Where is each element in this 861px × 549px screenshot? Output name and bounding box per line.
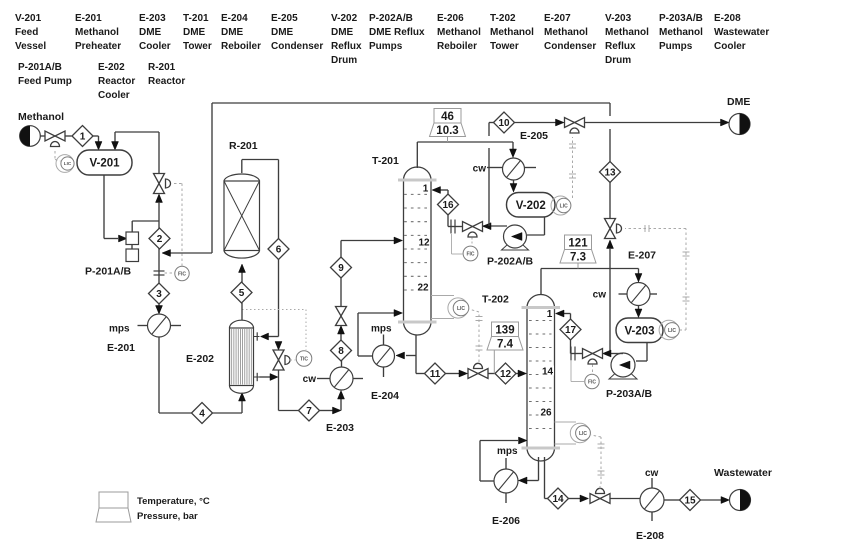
svg-text:E-202: E-202 [186,353,214,365]
svg-text:1: 1 [80,132,86,143]
svg-text:P-201A/B: P-201A/B [85,266,132,278]
svg-text:Reactor: Reactor [148,76,185,87]
svg-text:Pressure, bar: Pressure, bar [137,511,198,522]
svg-text:Drum: Drum [605,55,631,66]
svg-text:Reflux: Reflux [331,41,362,52]
svg-text:46: 46 [441,111,454,123]
svg-text:R-201: R-201 [229,140,258,152]
svg-text:DME: DME [183,27,206,38]
svg-text:8: 8 [338,346,344,357]
svg-text:P-202A/B: P-202A/B [487,256,534,268]
svg-text:11: 11 [430,369,441,380]
svg-text:14: 14 [552,494,564,505]
svg-text:3: 3 [156,289,162,300]
svg-text:TIC: TIC [300,356,308,362]
svg-text:P-203A/B: P-203A/B [606,388,653,400]
svg-text:P-201A/B: P-201A/B [18,62,62,73]
svg-text:Pumps: Pumps [369,41,403,52]
svg-text:DME: DME [331,27,354,38]
svg-text:T-202: T-202 [482,294,509,306]
svg-text:T-201: T-201 [372,155,399,167]
svg-text:7: 7 [306,406,312,417]
svg-text:4: 4 [199,409,205,420]
svg-text:E-208: E-208 [636,530,664,542]
svg-text:E-205: E-205 [520,130,548,142]
svg-text:DME: DME [271,27,294,38]
svg-text:LIC: LIC [579,431,587,437]
svg-text:cw: cw [303,374,317,385]
svg-text:7.4: 7.4 [497,339,514,351]
svg-text:9: 9 [338,263,344,274]
svg-text:Pumps: Pumps [659,41,693,52]
svg-text:LIC: LIC [668,328,676,334]
svg-text:Cooler: Cooler [714,41,746,52]
svg-text:P-202A/B: P-202A/B [369,13,413,24]
svg-text:139: 139 [495,325,514,337]
svg-text:E-206: E-206 [437,13,464,24]
svg-text:V-201: V-201 [15,13,42,24]
svg-text:E-208: E-208 [714,13,741,24]
svg-text:Reflux: Reflux [605,41,636,52]
svg-text:1: 1 [547,309,553,320]
svg-text:E-204: E-204 [221,13,248,24]
svg-text:Feed: Feed [15,27,38,38]
svg-text:15: 15 [684,496,696,507]
svg-text:LIC: LIC [457,306,465,312]
svg-text:DME: DME [727,96,750,108]
svg-text:mps: mps [109,324,130,335]
svg-text:Drum: Drum [331,55,357,66]
svg-text:Methanol: Methanol [75,27,119,38]
svg-text:FIC: FIC [466,251,474,257]
svg-text:FIC: FIC [178,271,186,277]
svg-text:E-205: E-205 [271,13,298,24]
svg-text:14: 14 [542,367,554,378]
svg-text:1: 1 [423,184,429,195]
svg-text:E-207: E-207 [628,250,656,262]
svg-text:E-201: E-201 [75,13,102,24]
svg-text:10.3: 10.3 [436,125,458,137]
svg-text:Cooler: Cooler [139,41,171,52]
svg-text:P-203A/B: P-203A/B [659,13,703,24]
svg-text:Methanol: Methanol [18,111,64,123]
svg-text:Vessel: Vessel [15,41,46,52]
svg-text:17: 17 [565,325,577,336]
svg-text:Methanol: Methanol [605,27,649,38]
svg-text:16: 16 [442,200,454,211]
svg-text:FIC: FIC [588,379,596,385]
svg-text:mps: mps [371,324,392,335]
svg-text:Cooler: Cooler [98,90,130,101]
svg-text:Reboiler: Reboiler [221,41,261,52]
svg-text:DME: DME [221,27,244,38]
svg-text:E-204: E-204 [371,390,399,402]
svg-text:Tower: Tower [490,41,519,52]
svg-text:Methanol: Methanol [659,27,703,38]
svg-text:DME Reflux: DME Reflux [369,27,425,38]
svg-text:E-207: E-207 [544,13,571,24]
svg-text:7.3: 7.3 [570,252,586,264]
svg-text:12: 12 [500,369,512,380]
svg-text:V-203: V-203 [624,325,654,337]
svg-text:5: 5 [239,288,245,299]
svg-text:Temperature, °C: Temperature, °C [137,496,210,507]
svg-text:LIC: LIC [64,161,72,166]
svg-text:121: 121 [568,238,588,250]
svg-text:Condenser: Condenser [544,41,596,52]
svg-text:cw: cw [593,290,607,301]
svg-text:26: 26 [540,408,552,419]
svg-text:V-203: V-203 [605,13,632,24]
svg-text:T-202: T-202 [490,13,516,24]
svg-text:E-201: E-201 [107,342,135,354]
svg-text:Feed Pump: Feed Pump [18,76,72,87]
svg-text:Methanol: Methanol [544,27,588,38]
svg-text:E-203: E-203 [139,13,166,24]
svg-text:Methanol: Methanol [437,27,481,38]
svg-text:Wastewater: Wastewater [714,27,769,38]
svg-text:R-201: R-201 [148,62,176,73]
svg-text:E-203: E-203 [326,422,354,434]
svg-text:Wastewater: Wastewater [714,467,772,479]
svg-text:12: 12 [418,238,430,249]
svg-text:E-206: E-206 [492,515,520,527]
svg-text:22: 22 [417,283,429,294]
svg-text:V-202: V-202 [516,200,546,212]
svg-text:Reactor: Reactor [98,76,135,87]
svg-text:Condenser: Condenser [271,41,323,52]
svg-text:13: 13 [604,168,616,179]
svg-text:2: 2 [157,234,163,245]
svg-text:Preheater: Preheater [75,41,121,52]
svg-text:cw: cw [645,468,659,479]
svg-text:V-202: V-202 [331,13,358,24]
svg-text:LIC: LIC [560,203,568,209]
svg-text:mps: mps [497,446,518,457]
svg-text:10: 10 [498,118,510,129]
svg-text:V-201: V-201 [89,158,120,170]
svg-text:DME: DME [139,27,162,38]
svg-text:Tower: Tower [183,41,212,52]
svg-text:Methanol: Methanol [490,27,534,38]
svg-text:E-202: E-202 [98,62,125,73]
svg-text:6: 6 [276,245,282,256]
svg-text:cw: cw [473,164,487,175]
svg-text:T-201: T-201 [183,13,209,24]
svg-text:Reboiler: Reboiler [437,41,477,52]
